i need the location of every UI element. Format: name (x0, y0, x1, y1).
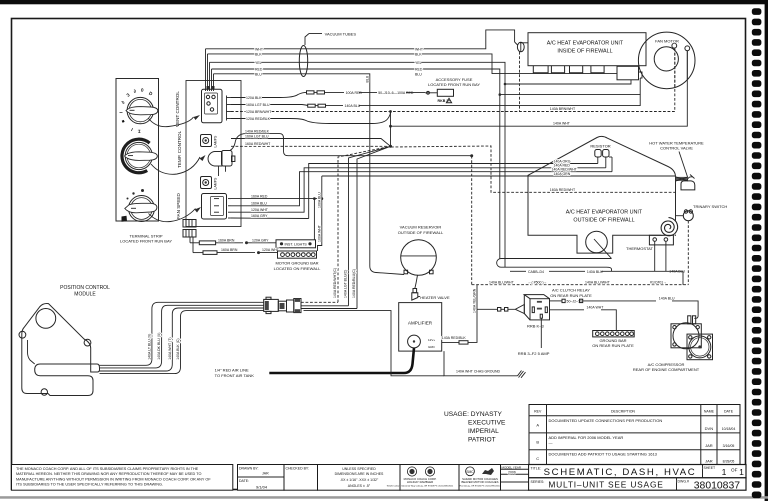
fan connector pin stubs (228, 199, 231, 218)
svg-text:WHT: WHT (415, 47, 424, 51)
svg-text:140A BLU/WHT: 140A BLU/WHT (489, 280, 515, 284)
svg-text:140A WHT (T): 140A WHT (T) (168, 337, 172, 359)
svg-text:BLU: BLU (365, 75, 369, 82)
ground bar on rear run plate (592, 331, 634, 349)
svg-text:SMC: SMC (466, 470, 474, 474)
svg-text:160A BRN: 160A BRN (221, 248, 238, 252)
motor ground bar (278, 251, 317, 258)
wire 140A RED (231, 164, 606, 213)
heater valve (412, 275, 450, 300)
svg-text:CABB–D4: CABB–D4 (528, 270, 544, 274)
svg-text:SHEET: SHEET (704, 466, 717, 470)
svg-text:140A WHT: 140A WHT (587, 306, 605, 310)
title block (529, 465, 747, 492)
terminal strip block 1 (183, 220, 196, 228)
svg-text:GRD: GRD (428, 345, 436, 349)
wire 140A RED/BLK from amplifier (442, 309, 477, 344)
wire 160A BRN to inst lights (190, 237, 276, 245)
leader knob1 to vent connector (149, 117, 194, 127)
trinary dashed drop (687, 221, 689, 285)
svg-text:TEMP. CONTROL: TEMP. CONTROL (177, 130, 182, 168)
company logo box monaco (387, 465, 459, 491)
svg-text:CHECKED BY:: CHECKED BY: (286, 467, 310, 471)
drawn-by box (238, 465, 285, 491)
svg-text:C: C (536, 456, 539, 461)
svg-text:140A BLU: 140A BLU (345, 104, 361, 108)
svg-text:HOLIDAY RAMBLER: HOLIDAY RAMBLER (407, 480, 433, 484)
svg-text:JAR: JAR (705, 443, 713, 448)
amplifier box (399, 303, 442, 352)
svg-text:ON REAR RUN PLATE: ON REAR RUN PLATE (592, 343, 634, 348)
svg-text:BLU: BLU (415, 72, 422, 76)
svg-text:TRINARY SWITCH: TRINARY SWITCH (693, 204, 727, 209)
A/C compressor (633, 316, 713, 372)
wire 160A RED/WHT dashed long (231, 142, 676, 192)
svg-text:140A RED/BLK: 140A RED/BLK (442, 336, 467, 340)
svg-text:DOCUMENTED UPDATE CONNECTION: DOCUMENTED UPDATE CONNECTIONS PER PRODUC… (549, 418, 663, 423)
leader knob3 to fan connector (149, 209, 196, 222)
svg-text:OF: OF (731, 468, 738, 473)
svg-text:10/18/04: 10/18/04 (722, 427, 736, 431)
svg-text:BLK: BLK (415, 52, 422, 56)
wire 140A BLU relay to compressor (550, 297, 699, 319)
svg-text:LOCATED ON FIREWALL: LOCATED ON FIREWALL (274, 266, 321, 271)
revision table (529, 405, 740, 465)
svg-text:←( #500 )→: ←( #500 )→ (528, 280, 547, 284)
svg-text:LOCATED FRONT RUN BAY: LOCATED FRONT RUN BAY (120, 239, 172, 244)
svg-text:100A BLU: 100A BLU (318, 192, 322, 208)
fan speed knob (122, 189, 157, 222)
svg-text:DESCRIPTION: DESCRIPTION (611, 409, 635, 413)
svg-text:JAR: JAR (705, 459, 713, 464)
blower loop wire upper (497, 259, 612, 272)
svg-text:BLU: BLU (255, 72, 262, 76)
svg-text:120A WHT: 120A WHT (251, 208, 269, 212)
svg-text:DATE: DATE (724, 409, 734, 413)
lamp feed riser 1 (313, 199, 315, 240)
wire 140A WHT chassis ground (444, 351, 526, 378)
svg-text:140A DK BLU (X): 140A DK BLU (X) (157, 333, 161, 360)
svg-text:HEATER VALVE: HEATER VALVE (420, 295, 450, 300)
vent connector pin stubs (227, 96, 232, 121)
svg-text:THERMOSTAT: THERMOSTAT (626, 246, 654, 251)
svg-text:A: A (536, 423, 539, 428)
svg-text:REAR OF ENGINE COMPARTMENT: REAR OF ENGINE COMPARTMENT (633, 367, 700, 372)
svg-text:INSIDE OF FIREWALL: INSIDE OF FIREWALL (557, 49, 612, 55)
svg-text:Σ: Σ (137, 129, 140, 134)
svg-text:120A BLK: 120A BLK (246, 96, 262, 100)
terminal strip block 2 (183, 230, 196, 238)
svg-text:DWG.#: DWG.# (678, 480, 690, 484)
svg-text:REV: REV (534, 409, 542, 413)
blower motor circle (586, 231, 612, 258)
svg-text:50–J10–6—100A RED: 50–J10–6—100A RED (378, 91, 414, 95)
wire 140A ORG (231, 159, 598, 218)
svg-text:140A LT BLU (X): 140A LT BLU (X) (147, 334, 151, 360)
svg-text:160A LGT BLU: 160A LGT BLU (245, 134, 269, 138)
svg-text:160A LGT BLU: 160A LGT BLU (246, 103, 270, 107)
svg-text:DRAWN BY:: DRAWN BY: (239, 467, 259, 471)
svg-text:ADD IMPERIAL FOR 2006 MODE: ADD IMPERIAL FOR 2006 MODEL YEAR (549, 435, 624, 440)
svg-text:140A RED/BLU(C): 140A RED/BLU(C) (352, 269, 356, 298)
wire 140A RED/WHT (231, 168, 612, 218)
disclaimer note box (12, 465, 233, 491)
svg-text:OUTSIDE OF FIREWALL: OUTSIDE OF FIREWALL (573, 218, 634, 224)
svg-text:160A GRY: 160A GRY (251, 214, 268, 218)
svg-text:PATRIOT: PATRIOT (468, 437, 496, 444)
inline connector 4-way (264, 297, 301, 313)
svg-text:BEAVER MOTOR COACHES: BEAVER MOTOR COACHES (462, 480, 499, 484)
vacuum tube bundle ellipse (299, 46, 307, 77)
blower resistor block on evaporator (617, 66, 642, 80)
svg-text:140A WHT: 140A WHT (553, 122, 571, 126)
svg-text:VENT CONTROL: VENT CONTROL (175, 91, 180, 127)
wire 120A BRN/WHT dashed to fan motor (231, 49, 675, 114)
svg-text:DVN: DVN (705, 426, 714, 431)
hot water temperature control valve (649, 140, 704, 190)
svg-text:RRB K–3: RRB K–3 (527, 324, 544, 329)
vacuum tubes callout (305, 31, 356, 45)
svg-text:140A LGT BLU(C): 140A LGT BLU(C) (344, 270, 348, 298)
relay fuse drop RRB 3-F2 (518, 318, 550, 356)
svg-text:CONTROL VALVE: CONTROL VALVE (660, 146, 693, 151)
svg-text:140A WHT CHAS GROUND: 140A WHT CHAS GROUND (456, 369, 501, 373)
vacuum reservoir (398, 225, 444, 276)
svg-text:120A RED/BLK: 120A RED/BLK (246, 117, 271, 121)
svg-text:140A BLK (C): 140A BLK (C) (176, 338, 180, 359)
wire 160A BRN to motor ground bar (193, 237, 280, 254)
relay coil feed from left (473, 288, 525, 313)
svg-text:ON REAR RUN PLATE: ON REAR RUN PLATE (550, 293, 592, 298)
wire 140A BLU evaporator row (510, 270, 686, 285)
wire 140A YEL/GRN drop to relay (476, 285, 478, 310)
svg-text:DIMENSIONS ARE IN INCHES: DIMENSIONS ARE IN INCHES (335, 472, 384, 476)
svg-text:2006: 2006 (508, 470, 516, 474)
svg-text:I: I (119, 112, 124, 113)
svg-text:ITS SUBSIDIARIES TO THE USER S: ITS SUBSIDIARIES TO THE USER SPECIFICALL… (16, 483, 163, 487)
svg-text:100A WHT: 100A WHT (318, 224, 322, 242)
svg-text:100A RED: 100A RED (346, 91, 363, 95)
svg-text:8/28/05: 8/28/05 (723, 460, 735, 464)
svg-text:140A RED/WHT(C): 140A RED/WHT(C) (333, 268, 337, 298)
A/C heat evaporator unit outside of firewall housing (528, 136, 676, 253)
svg-text:120A GRY: 120A GRY (252, 238, 269, 242)
svg-text:JAR: JAR (262, 472, 269, 476)
company logo box safari (459, 465, 501, 491)
svg-text:TO FRONT AIR TANK: TO FRONT AIR TANK (215, 373, 255, 378)
svg-text:A/C HEAT EVAPORATOR UNIT: A/C HEAT EVAPORATOR UNIT (547, 41, 624, 47)
svg-text:RRB 3–F2 5 AMP: RRB 3–F2 5 AMP (518, 351, 550, 356)
svg-text:3/16/05: 3/16/05 (723, 444, 735, 448)
thermostat drop wires (655, 241, 666, 271)
accessory fuse RKB 2 (425, 89, 454, 103)
svg-text:160A BRN: 160A BRN (218, 238, 235, 242)
svg-text:140A BRN/WHT: 140A BRN/WHT (550, 107, 576, 111)
fan speed connector (202, 194, 227, 220)
svg-text:SERIES:: SERIES: (531, 480, 545, 484)
svg-text:INST. LIGHTS: INST. LIGHTS (285, 242, 308, 246)
wire 140A WHT relay to rear ground bar (550, 306, 617, 331)
A/C heat evaporator unit inside of firewall box (528, 33, 646, 66)
thermostat (626, 235, 673, 251)
svg-text:12V+: 12V+ (428, 338, 435, 342)
relay RRB K-3 (524, 295, 549, 329)
svg-text:IMPERIAL: IMPERIAL (468, 428, 499, 435)
wire 140A LGT BLU (C) riser (344, 146, 391, 305)
vacuum tube WHT (206, 30, 515, 91)
svg-text:AMPLIFIER: AMPLIFIER (408, 321, 433, 326)
fan motor (638, 32, 695, 89)
svg-text:B: B (536, 440, 539, 445)
wire 160A LGT BLU mid (231, 134, 391, 146)
svg-text:TITLE:: TITLE: (531, 467, 542, 471)
A/C clutch relay label (550, 288, 592, 298)
trinary switch (676, 204, 728, 221)
svg-text:RED: RED (255, 68, 263, 72)
vacuum tube RED (212, 68, 641, 259)
svg-text:140A BLU/WHT: 140A BLU/WHT (585, 280, 611, 284)
svg-text:NAME: NAME (704, 409, 715, 413)
vent control connector (202, 86, 223, 123)
thermal bulb on evaporator (515, 42, 528, 52)
lamp 2 (201, 177, 218, 190)
svg-text:LAMPS: LAMPS (214, 177, 218, 190)
vent control knob (126, 97, 158, 123)
svg-text:BLK: BLK (255, 52, 262, 56)
temp control actuator (208, 151, 235, 177)
air line label (215, 368, 255, 378)
thick air line to amplifier (269, 348, 414, 373)
model year mini table (501, 465, 529, 491)
inst lights box (276, 240, 316, 248)
svg-text:YEL: YEL (255, 61, 262, 65)
wire 120A BLK to accessory fuse (231, 91, 425, 100)
wire 140A RED/BLU (C) riser (352, 146, 390, 308)
svg-text:160A BLU: 160A BLU (251, 202, 267, 206)
vacuum tube YEL (210, 61, 632, 267)
wire 140A GRN (231, 172, 676, 212)
svg-text:1: 1 (722, 467, 727, 477)
svg-text:YEL: YEL (415, 61, 422, 65)
svg-text:160A RED/WHT: 160A RED/WHT (550, 188, 576, 192)
wire 120A RED/BLK joins dashed (231, 112, 391, 124)
svg-text:140A GRN: 140A GRN (554, 172, 571, 176)
svg-text:RED: RED (415, 68, 423, 72)
usage list (444, 411, 506, 444)
evaporator mounting tabs (533, 66, 604, 73)
sprocket hole dots right edge (752, 8, 762, 498)
svg-text:A/C HEAT EVAPORATOR UNIT: A/C HEAT EVAPORATOR UNIT (566, 210, 643, 216)
wire 160A LGT BLU / 140A BLU (231, 95, 640, 109)
svg-text:UNLESS SPECIFIED: UNLESS SPECIFIED (342, 467, 376, 471)
svg-text:9/1/04: 9/1/04 (256, 485, 268, 490)
svg-text:.XX ± 1/16" .XXX ± 1/32": .XX ± 1/16" .XXX ± 1/32" (340, 478, 379, 482)
svg-text:140A BLU: 140A BLU (659, 297, 675, 301)
svg-text:140A RED/BLK: 140A RED/BLK (245, 129, 270, 133)
svg-text:DOCUMENTED ADD PATRIOT TO: DOCUMENTED ADD PATRIOT TO USAGE STARTING… (549, 451, 658, 456)
wire 140A BLU/WHT dashed run (472, 280, 689, 284)
svg-text:Harrisburg, OR 97446 Ph: (541: Harrisburg, OR 97446 Ph: (541) 995-8214 (460, 484, 502, 487)
svg-text:WHT: WHT (255, 47, 264, 51)
svg-text:LAMPS: LAMPS (214, 135, 218, 148)
position control module body (19, 304, 100, 396)
wire 140A RED/BLK from actuator (230, 129, 472, 155)
module wires to connector (100, 302, 264, 373)
svg-text:RESISTOR: RESISTOR (590, 144, 610, 149)
svg-text:POSITION CONTROL: POSITION CONTROL (60, 285, 110, 291)
svg-text:MODEL YEAR: MODEL YEAR (502, 465, 522, 469)
resistor (590, 144, 612, 172)
junction vertical into dashed (389, 112, 392, 148)
svg-text:140A BLU: 140A BLU (587, 270, 603, 274)
svg-text:THE MONACO COACH CORP. AND ALL: THE MONACO COACH CORP. AND ALL OF ITS SU… (16, 467, 199, 471)
bulb lead dashed (519, 52, 521, 112)
svg-text:DATE:: DATE: (239, 479, 249, 483)
leader knob2 to temp actuator (151, 157, 200, 174)
checked-by box (284, 465, 318, 491)
svg-text:EXECUTIVE: EXECUTIVE (468, 420, 506, 427)
svg-text:LOCATED FRONT RUN BAY: LOCATED FRONT RUN BAY (428, 82, 480, 87)
svg-text:OUTSIDE OF FIREWALL: OUTSIDE OF FIREWALL (398, 230, 444, 235)
vacuum tube BLK (208, 52, 618, 91)
wires out of connector (301, 302, 357, 308)
temp control knob (122, 139, 157, 173)
svg-text:MULTI–UNIT SEE USAGE: MULTI–UNIT SEE USAGE (548, 480, 663, 490)
tolerance note box (318, 465, 401, 491)
svg-text:—: — (549, 441, 553, 446)
svg-text:#1/C#01→: #1/C#01→ (650, 280, 667, 284)
svg-text:VACUUM TUBES: VACUUM TUBES (325, 31, 357, 36)
svg-text:160A RED/WHT: 160A RED/WHT (245, 142, 271, 146)
svg-text:MOTOR GROUND BAR: MOTOR GROUND BAR (275, 261, 318, 266)
svg-text:ANGLES ± .5°: ANGLES ± .5° (348, 484, 371, 488)
vent knob position icons (119, 88, 154, 134)
svg-text:140A YEL/GRN: 140A YEL/GRN (473, 288, 477, 313)
lamp 1 (201, 135, 218, 148)
control head interface box (186, 81, 241, 227)
svg-text:120A BRN/WHT: 120A BRN/WHT (246, 110, 272, 114)
wire 140A RED/BLK riser to clutch circuit (470, 154, 473, 285)
svg-text:1: 1 (739, 467, 744, 477)
svg-text:MATERIAL HEREON. NEITHER THIS: MATERIAL HEREON. NEITHER THIS DRAWING NO… (16, 472, 201, 476)
svg-text:SCHEMATIC, DASH, HVAC: SCHEMATIC, DASH, HVAC (544, 467, 697, 478)
svg-text:38010837: 38010837 (694, 481, 740, 492)
wire 120A WHT to motor ground bar (318, 176, 322, 251)
wire 140A WHT to fan motor (389, 51, 687, 128)
blower outlet coil (659, 218, 679, 238)
svg-text:160A RED: 160A RED (251, 194, 268, 198)
svg-text:FAN MOTOR: FAN MOTOR (655, 38, 679, 43)
wire 140A RED/WHT (C) dashed riser (333, 146, 390, 302)
svg-text:USAGE: DYNASTY: USAGE: DYNASTY (444, 411, 502, 418)
svg-text:91320 Coburg Industrial Way C: 91320 Coburg Industrial Way Coburg, OR 9… (387, 484, 454, 487)
svg-text:MANUFACTURE ANYTHING WITHOUT P: MANUFACTURE ANYTHING WITHOUT PERMISSION … (16, 477, 211, 481)
vacuum tube BLU (214, 72, 423, 274)
svg-text:FAN SPEED: FAN SPEED (176, 193, 181, 219)
svg-text:MODULE: MODULE (74, 292, 96, 298)
module wire 4 to chassis ground (304, 311, 445, 376)
dash control panel faceplate (116, 79, 159, 222)
